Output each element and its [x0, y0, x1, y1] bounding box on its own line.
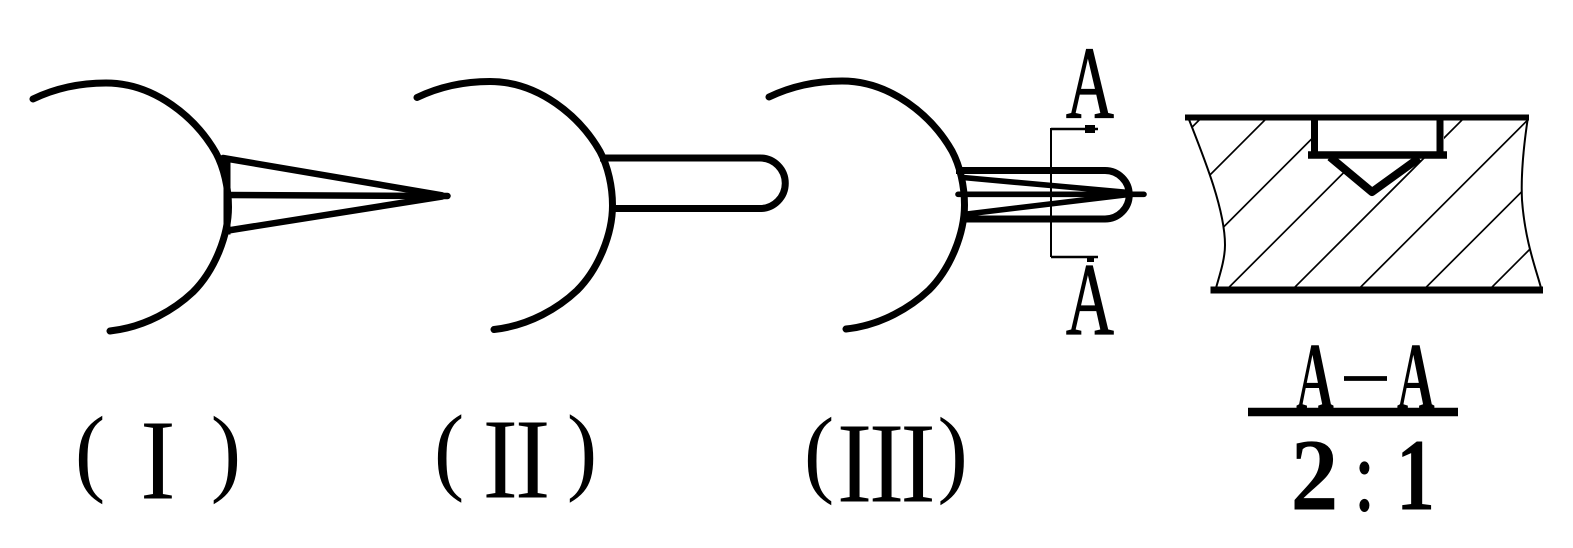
svg-text::: :	[1354, 418, 1376, 533]
svg-text:(: (	[804, 399, 834, 507]
svg-text:I: I	[515, 396, 550, 522]
svg-text:I: I	[140, 397, 175, 523]
svg-text:I: I	[900, 400, 935, 526]
svg-text:): )	[211, 398, 241, 506]
svg-text:(: (	[434, 396, 464, 504]
svg-text:2: 2	[1291, 417, 1339, 532]
svg-text:1: 1	[1396, 417, 1435, 532]
svg-text:I: I	[483, 396, 518, 522]
svg-text:I: I	[869, 400, 904, 526]
svg-text:A: A	[1066, 242, 1114, 356]
svg-text:A: A	[1066, 26, 1114, 140]
svg-text:): )	[567, 396, 597, 504]
svg-text:I: I	[837, 400, 872, 526]
svg-text:(: (	[75, 398, 105, 506]
svg-text:): )	[938, 399, 968, 507]
